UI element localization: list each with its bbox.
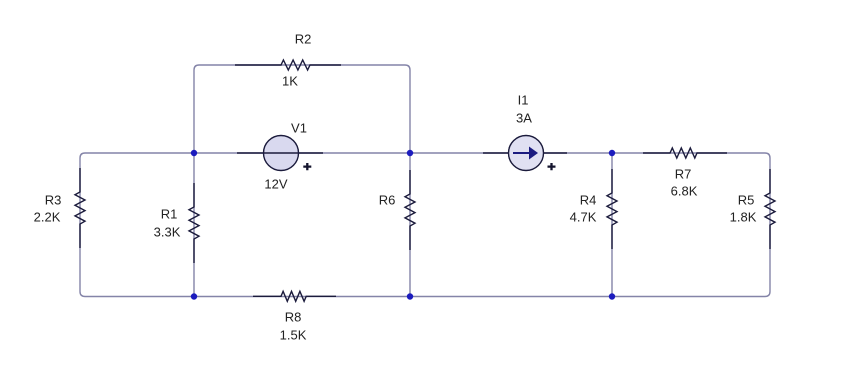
value 4.7K	[570, 210, 597, 225]
value 1K	[282, 74, 298, 89]
wire R6 vertical	[409, 153, 411, 297]
value 3A	[516, 111, 532, 126]
value 6.8K	[671, 184, 698, 199]
node at R6 top junction	[407, 150, 413, 156]
plus sign of I1	[548, 163, 556, 170]
wire bottom R8 branch	[194, 296, 410, 298]
voltage source V1 12V	[237, 136, 323, 171]
label V1	[291, 121, 307, 136]
node at R1 top junction	[191, 150, 197, 156]
wire R2 loop	[194, 65, 410, 153]
plus sign of V1	[303, 163, 311, 170]
label I1	[518, 93, 529, 108]
wire bottom middle branch	[410, 296, 612, 298]
node at R4 top junction	[609, 150, 615, 156]
value 2.2K	[34, 210, 61, 225]
resistor R4 4.7K	[607, 169, 617, 249]
current source I1 3A	[483, 136, 567, 171]
wire right loop with R7 branch	[612, 153, 770, 297]
wire R1 vertical	[193, 153, 195, 297]
wire main horizontal I1 branch	[410, 152, 612, 154]
label R2	[295, 32, 312, 47]
wire left loop (top-left and bottom-left corners)	[80, 153, 194, 297]
label R8	[285, 310, 302, 325]
value 12V	[264, 177, 287, 192]
value 1.8K	[730, 210, 757, 225]
resistor R1 3.3K	[189, 183, 199, 263]
node at R1 bottom junction	[191, 293, 197, 299]
resistor R5 1.8K	[765, 169, 775, 249]
wire R4 vertical	[611, 153, 613, 297]
label R7	[675, 167, 692, 182]
resistor R8 1.5K	[253, 291, 336, 301]
label R3	[45, 193, 62, 208]
resistor R3 2.2K	[75, 168, 85, 248]
resistor R7 6.8K	[643, 148, 727, 158]
resistor R2 1K	[235, 60, 341, 70]
value 3.3K	[154, 225, 181, 240]
node at R6 bottom junction	[407, 293, 413, 299]
label R4	[580, 193, 597, 208]
label R1	[161, 207, 178, 222]
wire main horizontal V1 branch	[194, 152, 410, 154]
resistor R6	[405, 170, 415, 250]
value 1.5K	[280, 328, 307, 343]
label R6	[379, 193, 396, 208]
node at R4 bottom junction	[609, 293, 615, 299]
label R5	[738, 193, 755, 208]
